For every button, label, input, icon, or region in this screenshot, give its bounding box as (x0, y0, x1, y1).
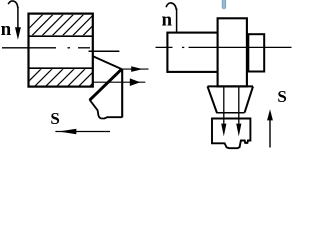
machined step line right of workpiece (89, 50, 120, 52)
feed arrow S (right, pointing up) (267, 109, 273, 147)
workpiece rect (left) (29, 14, 93, 87)
svg-text:S: S (277, 87, 286, 106)
cutter rect (vertical) (218, 18, 247, 86)
svg-text:n: n (1, 19, 12, 40)
blue cursor tick (222, 0, 226, 9)
feed arrow S (left, pointing left) (55, 129, 110, 134)
chuck taper left slant (208, 86, 218, 113)
drill arrow left: stem (223, 87, 225, 132)
hatched band top (22, 14, 115, 35)
rotation arrow n (right): arrowhead down (174, 34, 180, 47)
cutting tool (left): top edge diagonal (92, 56, 121, 69)
chuck taper bottom line (217, 112, 245, 114)
workpiece block (bottom right) (212, 119, 250, 149)
cutting tool: right edge vertical (121, 69, 123, 118)
centerline (left, dash-dot) (2, 47, 90, 49)
arrow A1 (upper right) (122, 66, 149, 72)
rotation arrow n (left): arc hook (8, 1, 18, 8)
chuck taper right slant (245, 86, 253, 112)
shaft rect (arbor) (167, 33, 218, 72)
chuck taper top line (cutter bottom) (208, 85, 254, 87)
cutting tool: bottom and left outline (90, 100, 123, 119)
drill arrow left: head down (221, 124, 226, 137)
centerline (right, dash-dot) (156, 46, 292, 48)
rotation arrow n (right): stem (176, 9, 178, 36)
cutting tool: thick cutting edge (90, 69, 122, 100)
rotation arrow n (left): arrowhead down (15, 27, 21, 39)
rotation arrow n (right): arc hook (166, 3, 176, 10)
drill arrow right: head down (236, 124, 241, 137)
inner line between top band and middle (28, 35, 93, 37)
small right rect (arbor end) (248, 34, 264, 71)
drill arrow right: stem (238, 87, 240, 132)
hatched band bottom (24, 69, 107, 86)
inner line between middle and bottom band (28, 67, 93, 69)
rotation arrow n (left): stem (17, 7, 19, 29)
svg-text:n: n (162, 10, 173, 31)
svg-text:S: S (50, 109, 59, 128)
arrow A2 (lower right) (93, 78, 146, 86)
